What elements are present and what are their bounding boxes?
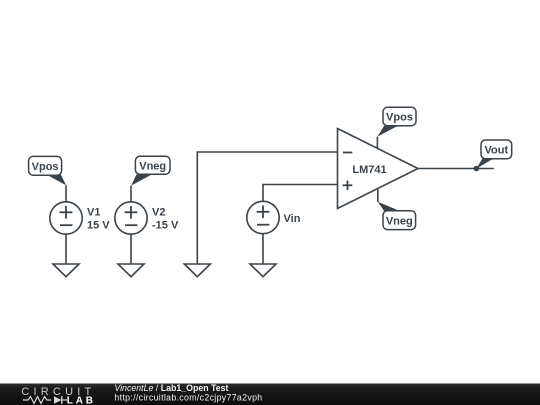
footer bar (0, 384, 540, 405)
voltage source V2 (115, 202, 147, 234)
wire V1 top (65, 185, 67, 202)
ground at inverting input (184, 264, 210, 277)
svg-text:LM741: LM741 (352, 164, 386, 176)
wire Vin bottom (262, 234, 264, 264)
ground under Vin (250, 264, 276, 277)
wire V2 bottom (130, 234, 132, 264)
svg-text:-15 V: -15 V (152, 220, 179, 232)
wire output (418, 168, 494, 170)
svg-text:LAB: LAB (67, 395, 96, 405)
wire Vin to non-inverting input (263, 185, 338, 202)
wire inverting input to ground (197, 152, 337, 264)
wire V2 top (130, 186, 132, 202)
svg-text:V1: V1 (87, 207, 100, 219)
svg-text:Vneg: Vneg (139, 161, 166, 173)
flag Vpos supply (377, 107, 416, 136)
logo CIRCUIT LAB (21, 386, 95, 405)
svg-text:15 V: 15 V (87, 220, 110, 232)
voltage source V1 (50, 202, 82, 234)
svg-text:http://circuitlab.com/c2cjpy77: http://circuitlab.com/c2cjpy77a2vph (114, 392, 262, 402)
svg-text:Vpos: Vpos (32, 161, 59, 173)
op-amp U1 LM741 (338, 129, 419, 209)
junction dot output node (474, 166, 480, 172)
flag Vneg V2 (131, 156, 170, 185)
svg-text:V2: V2 (152, 207, 165, 219)
svg-text:Vin: Vin (284, 213, 301, 225)
ground under V1 (53, 264, 79, 277)
svg-text:Vout: Vout (484, 144, 508, 156)
footer credit text (114, 383, 262, 402)
wire positive supply pin (376, 137, 378, 149)
ground under V2 (118, 264, 144, 277)
flag Vout (476, 140, 511, 169)
voltage source Vin (247, 201, 279, 233)
svg-text:Vpos: Vpos (386, 112, 413, 124)
svg-text:Vneg: Vneg (386, 216, 413, 228)
flag Vneg supply (378, 202, 416, 230)
label Vin (284, 213, 301, 225)
flag Vpos V1 (29, 156, 66, 185)
wire negative supply pin (377, 188, 379, 202)
label V2 value -15 V (152, 207, 179, 232)
label V1 value 15 V (87, 207, 110, 232)
wire V1 bottom (65, 234, 67, 264)
